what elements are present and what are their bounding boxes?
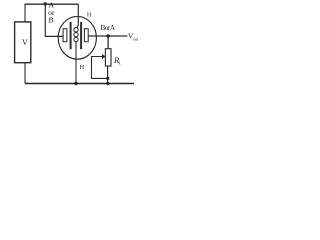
svg-text:L: L [119,60,122,65]
svg-text:H: H [80,64,85,71]
svg-text:BorA: BorA [101,24,116,32]
svg-text:out: out [133,36,139,41]
svg-text:V: V [22,38,28,47]
svg-text:B: B [49,15,54,24]
svg-text:H: H [87,12,92,19]
